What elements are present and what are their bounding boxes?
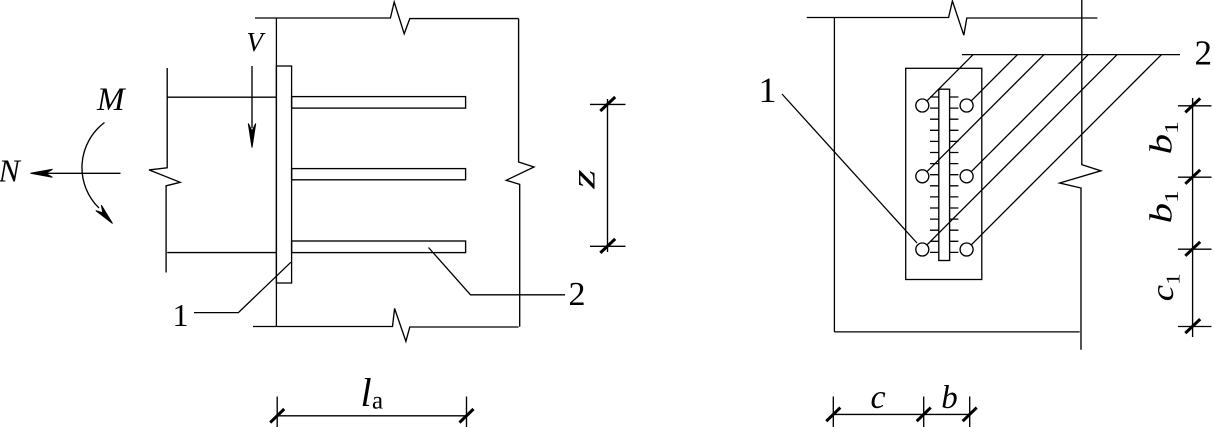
leader line for label 1: [782, 94, 917, 243]
dimension chain: extension line at bottom edge: [1178, 326, 1212, 328]
force V arrow: [251, 66, 253, 128]
wire: concrete top edge with break: [807, 1, 1098, 35]
hatch leader line from top-right anchor: [971, 55, 1017, 101]
wire: member bottom flange line: [167, 252, 277, 254]
dimension z: top extension line: [590, 103, 626, 105]
svg-text:b1: b1: [1143, 121, 1183, 154]
svg-text:M: M: [96, 82, 126, 118]
svg-text:b: b: [941, 380, 958, 416]
force N arrow: [33, 172, 121, 174]
svg-text:1: 1: [759, 70, 777, 110]
wire: member top flange line: [167, 96, 276, 98]
dimension chain: slash tick 2: [1185, 170, 1200, 184]
dimension z: dimension line: [607, 99, 609, 252]
hatch leader line from mid-left anchor: [927, 55, 1044, 172]
wire: concrete face line: [275, 18, 277, 327]
dimension z: bottom extension line: [590, 245, 626, 247]
dimension chain: extension line at top anchors: [1178, 105, 1212, 107]
dimension chain: slash tick 3: [1185, 242, 1200, 256]
hatch leader line from top-left anchor: [927, 55, 973, 101]
moment M arc arrow: [82, 123, 105, 209]
wire: concrete bottom edge: [834, 331, 1079, 333]
svg-text:b1: b1: [1143, 190, 1183, 223]
anchor circle top-right: [960, 99, 973, 112]
anchor circle mid-left: [916, 170, 929, 183]
dimension c b: left extension line: [832, 397, 834, 427]
dimension c b: dimension line: [833, 413, 969, 415]
hatch leader line from bottom-right anchor: [971, 55, 1161, 245]
svg-text:z: z: [565, 169, 603, 189]
dimension la: left extension line: [276, 397, 278, 427]
svg-text:V: V: [247, 27, 267, 57]
hatch leader line from mid-right anchor: [971, 55, 1088, 172]
svg-text:l: l: [361, 370, 372, 415]
dimension c b: right slash tick: [963, 408, 977, 422]
dimension z: bottom slash tick: [600, 239, 615, 253]
weld ticks: [930, 97, 958, 252]
svg-text:a: a: [372, 388, 383, 415]
anchor circle bottom-left: [916, 243, 929, 256]
dimension la: left slash tick: [270, 409, 284, 423]
dimension c b: left slash tick: [826, 408, 840, 422]
leader line to label 2: [962, 54, 1180, 56]
dimension c b: middle extension line: [923, 397, 925, 427]
wire: concrete top edge with break: [255, 2, 519, 34]
dimension la: right slash tick: [460, 409, 474, 423]
dimension chain: slash tick 1: [1185, 98, 1200, 112]
wire: concrete bottom edge with break: [253, 309, 519, 342]
svg-text:N: N: [0, 153, 22, 189]
dimension chain: extension line at bottom anchors: [1178, 248, 1212, 250]
leader line for label 2: [429, 248, 566, 295]
anchor bar 2 (middle): [292, 169, 466, 180]
anchor circle mid-right: [960, 170, 973, 183]
wire: concrete left edge: [833, 18, 835, 332]
dimension chain b1 b1 c1: dimension line: [1192, 98, 1194, 337]
wire: concrete right edge with break: [506, 19, 534, 327]
wire: member vertical line with break: [149, 68, 180, 273]
wire: column right edge with break: [1060, 0, 1101, 350]
svg-text:2: 2: [569, 276, 586, 313]
anchor plate 1 (side view): [276, 66, 291, 283]
svg-text:c: c: [870, 379, 885, 416]
svg-text:c1: c1: [1145, 273, 1184, 301]
dimension c b: middle slash tick: [917, 408, 931, 422]
hatch leader line from bottom-left anchor: [927, 55, 1117, 245]
anchor circle bottom-right: [960, 243, 973, 256]
dimension z: top slash tick: [600, 97, 615, 111]
svg-text:1: 1: [173, 297, 189, 333]
dimension la: dimension line: [277, 415, 466, 417]
anchor circle top-left: [916, 99, 929, 112]
leader line for label 1: [194, 262, 291, 312]
dimension chain: slash tick 4: [1185, 319, 1200, 333]
dimension chain: extension line at mid anchors: [1178, 176, 1212, 178]
anchor bar 2 (bottom): [292, 241, 466, 253]
shear key bar: [939, 89, 950, 260]
anchor plate 1 (face view): [906, 68, 982, 279]
dimension c b: right extension line: [969, 397, 971, 427]
dimension la: right extension line: [466, 397, 468, 427]
svg-text:2: 2: [1195, 34, 1213, 73]
anchor bar 2 (top): [292, 97, 466, 109]
